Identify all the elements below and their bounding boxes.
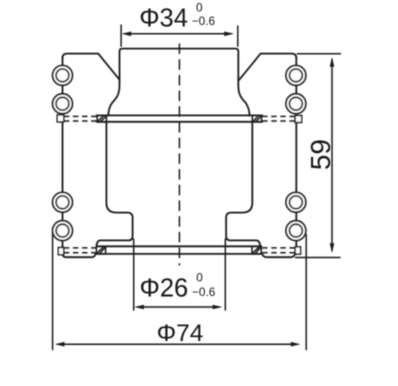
pin circle right 1 bbox=[286, 66, 306, 86]
svg-text:0: 0 bbox=[196, 0, 203, 14]
pin stub square top-left bbox=[57, 115, 64, 122]
dimension 59: extension lines bbox=[295, 54, 341, 258]
top flange lower line bbox=[97, 121, 263, 123]
hidden flange dashes bottom-left bbox=[64, 248, 96, 253]
right tube wall with S-curve into bottom lip bbox=[226, 122, 260, 246]
svg-text:Φ26: Φ26 bbox=[140, 275, 189, 303]
top flange upper line bbox=[97, 114, 263, 116]
dimension 59: dimension line with arrows bbox=[330, 57, 335, 253]
hidden flange dashes top-right bbox=[262, 116, 295, 121]
section hatch box top-right bbox=[252, 115, 261, 121]
dimension Phi74: dimension line with arrows bbox=[55, 342, 301, 347]
pin stub square bottom-right bbox=[295, 247, 300, 254]
dimension Phi34: dimension line with arrows bbox=[122, 32, 234, 37]
left wing outer wall bbox=[62, 57, 64, 254]
dimension Phi74: extension lines bbox=[53, 233, 307, 351]
left tube wall with S-curve into bottom lip bbox=[97, 122, 133, 246]
pin circle right 4 bbox=[286, 221, 306, 241]
section hatch box bottom-right bbox=[252, 246, 261, 254]
dimension Phi34: text bbox=[139, 0, 215, 32]
left wing foot bbox=[63, 253, 96, 257]
pin stub square bottom-left bbox=[58, 248, 63, 255]
pin stub square top-right bbox=[295, 116, 302, 123]
pin circle left 4 bbox=[53, 221, 73, 241]
dimension Phi26: extension lines bbox=[134, 239, 226, 311]
vertical centerline bbox=[178, 44, 180, 266]
bottom flange upper line bbox=[96, 245, 261, 247]
pin circle left 3 bbox=[53, 192, 73, 212]
svg-text:0: 0 bbox=[196, 271, 203, 285]
svg-text:59: 59 bbox=[305, 139, 336, 170]
pin circle left 2 bbox=[53, 94, 73, 114]
section hatch box top-left bbox=[97, 115, 106, 121]
right wing foot bbox=[262, 254, 295, 257]
left wing top edge and angled edge bbox=[63, 54, 120, 80]
neck top edge and sides with concave transitions to top flange bbox=[108, 49, 249, 116]
right wing outer wall bbox=[295, 57, 297, 254]
bottom flange lower line bbox=[96, 253, 261, 255]
pin circle left 1 bbox=[53, 66, 73, 86]
right wing top edge and angled edge bbox=[239, 54, 296, 80]
pin circle right 3 bbox=[286, 192, 306, 212]
svg-text:−0.6: −0.6 bbox=[192, 285, 216, 299]
hidden flange dashes bottom-right bbox=[262, 248, 295, 253]
hidden flange dashes top-left bbox=[64, 116, 97, 121]
svg-text:−0.6: −0.6 bbox=[192, 14, 216, 28]
section hatch box bottom-left bbox=[96, 246, 105, 254]
pin circle right 2 bbox=[286, 94, 306, 114]
dimension Phi26: dimension line with arrows bbox=[134, 305, 222, 310]
svg-text:Φ74: Φ74 bbox=[157, 320, 204, 347]
dimension Phi34: extension lines bbox=[121, 25, 238, 47]
svg-text:Φ34: Φ34 bbox=[139, 4, 188, 32]
dimension Phi26: text bbox=[140, 271, 216, 303]
